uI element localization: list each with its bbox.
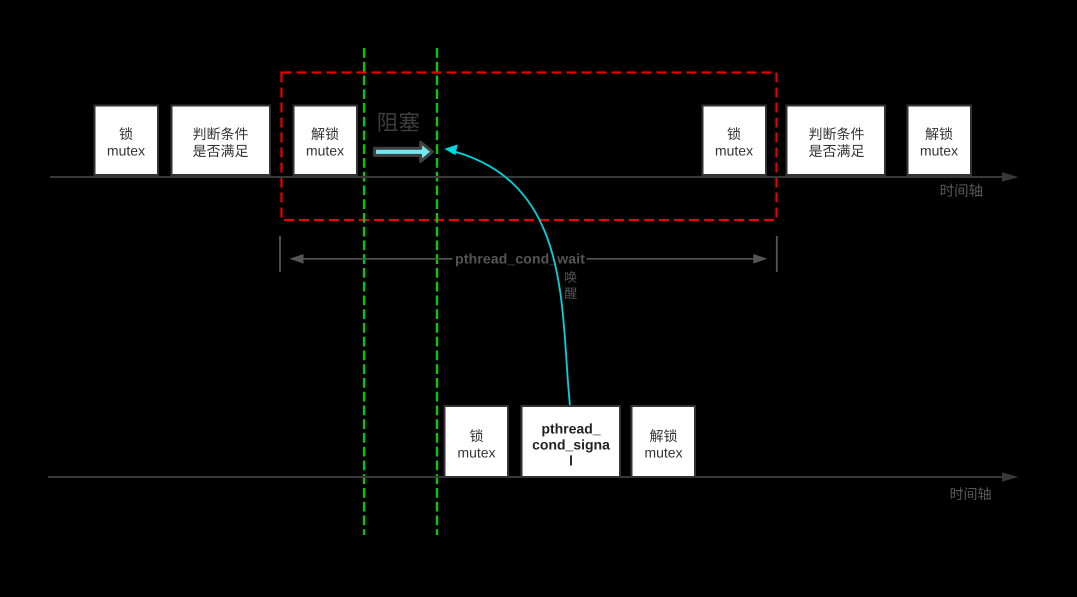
top timeline axis — [50, 172, 1019, 181]
bottom timeline label 时间轴 — [951, 487, 991, 500]
box: 判断条件是否满足 (top thread1 recheck) — [787, 106, 886, 176]
pthread_cond_wait span: left cap — [279, 236, 281, 272]
pthread_cond_wait double-headed arrow — [289, 254, 767, 264]
box: 解锁 mutex (top thread1 unlock2) — [908, 106, 972, 176]
green dashed vertical line (right) — [436, 48, 438, 535]
box: 解锁 mutex (bottom thread2 unlock) — [632, 406, 696, 477]
label pthread_cond_wait — [453, 249, 587, 267]
box: 锁 mutex (bottom thread2 lock) — [445, 406, 509, 477]
thick cyan block arrow (blocking) — [375, 142, 433, 161]
bottom timeline axis — [48, 472, 1019, 481]
green dashed vertical line (left) — [363, 48, 365, 535]
box: pthread_cond_signal (bottom thread2 signal) — [522, 406, 621, 477]
red dashed region box (critical section) — [282, 73, 777, 221]
label 阻塞 (blocked) — [379, 112, 420, 132]
box: 锁 mutex (top thread1 relock) — [703, 106, 767, 176]
top timeline label 时间轴 — [941, 184, 982, 197]
cyan wake-up curve arrow (signal) — [444, 144, 570, 405]
box: 判断条件是否满足 (top thread1 check) — [172, 106, 271, 176]
box: 解锁 mutex (top thread1 unlock) — [294, 106, 358, 176]
pthread_cond_wait span: right cap — [776, 236, 778, 272]
label 唤醒 (wake up, vertical) — [565, 271, 577, 299]
box: 锁 mutex (top thread1 lock) — [95, 106, 159, 176]
